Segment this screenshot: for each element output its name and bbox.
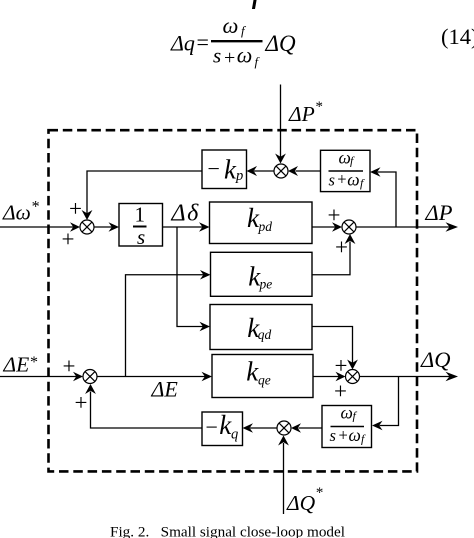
svg-text:1: 1 <box>135 203 146 227</box>
svg-text:+: + <box>334 379 347 404</box>
svg-text:+: + <box>62 227 75 252</box>
svg-text:ΔQ: ΔQ <box>265 31 296 56</box>
svg-text:(14): (14) <box>441 24 474 49</box>
svg-text:p: p <box>235 168 243 184</box>
svg-text:Δδ: Δδ <box>171 201 200 227</box>
svg-text:ΔP: ΔP <box>425 200 453 225</box>
svg-text:ΔQ: ΔQ <box>420 347 450 372</box>
svg-text:−: − <box>208 156 220 181</box>
svg-text:ω: ω <box>223 13 239 38</box>
svg-text:+: + <box>224 47 235 69</box>
svg-text:ω: ω <box>341 402 353 422</box>
svg-text:+: + <box>328 203 341 228</box>
svg-text:q: q <box>231 427 238 443</box>
svg-text:−: − <box>206 415 218 440</box>
svg-text:s: s <box>329 170 335 189</box>
svg-text:ω: ω <box>237 43 253 68</box>
svg-text:Fig. 2. Small signal close-l: Fig. 2. Small signal close-loop model <box>110 524 345 538</box>
svg-text:+: + <box>339 426 348 445</box>
svg-text:ω: ω <box>339 148 351 168</box>
svg-text:s: s <box>137 225 145 249</box>
svg-text:s: s <box>213 44 221 68</box>
svg-text:pd: pd <box>258 219 273 234</box>
svg-text:+: + <box>63 354 76 379</box>
svg-text:=: = <box>197 30 209 55</box>
svg-text:+: + <box>75 390 88 415</box>
svg-text:+: + <box>335 235 348 260</box>
svg-text:qd: qd <box>258 327 272 342</box>
svg-text:qe: qe <box>258 373 271 388</box>
svg-text:s: s <box>330 426 336 445</box>
svg-text:ω: ω <box>349 425 361 445</box>
svg-text:pe: pe <box>259 277 273 292</box>
svg-text:+: + <box>337 170 346 189</box>
svg-text:+: + <box>69 196 82 221</box>
svg-text:ΔE: ΔE <box>151 377 179 402</box>
svg-text:ω: ω <box>347 170 359 190</box>
svg-text:Δq: Δq <box>170 31 195 56</box>
svg-text:+: + <box>335 353 348 378</box>
